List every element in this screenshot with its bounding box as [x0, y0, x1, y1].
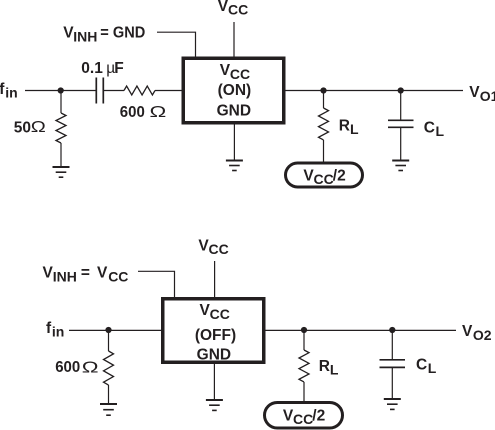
svg-text:L: L — [436, 123, 445, 139]
label 50 ohm — [14, 118, 46, 136]
svg-text:CC: CC — [293, 411, 313, 427]
junction node C — [398, 87, 404, 93]
box U2 pin label VCC — [200, 302, 230, 322]
wire box2 GND down — [213, 363, 215, 401]
svg-text:INH: INH — [53, 268, 77, 284]
wire output VO1 — [285, 90, 463, 92]
svg-text:600: 600 — [55, 359, 80, 376]
label VO2 — [462, 323, 492, 343]
wire CL to ground bottom — [391, 367, 393, 399]
wire node B to RL — [323, 91, 325, 109]
wire node E to RL — [303, 330, 305, 350]
svg-text:/2: /2 — [333, 167, 346, 184]
ground G3 — [392, 161, 409, 171]
svg-text:R: R — [339, 118, 350, 135]
svg-text:CC: CC — [230, 66, 250, 82]
svg-text:(OFF): (OFF) — [195, 327, 236, 344]
svg-text:0.1: 0.1 — [81, 60, 103, 77]
wire node C to CL — [400, 91, 402, 121]
svg-text:CC: CC — [108, 268, 128, 284]
label CL bottom — [416, 357, 437, 377]
svg-text:600: 600 — [120, 104, 145, 121]
ground G6 — [384, 399, 401, 409]
label VINH = VCC — [43, 265, 129, 285]
label VINH = GND — [63, 24, 145, 44]
label VCC supply bottom — [198, 238, 228, 258]
ground G5 — [206, 400, 223, 410]
wire RL to oval bottom — [303, 382, 305, 403]
svg-text:(ON): (ON) — [218, 82, 252, 99]
capacitor CL top plates — [388, 120, 414, 127]
ground G1 — [53, 167, 70, 177]
svg-text:CC: CC — [209, 241, 229, 257]
resistor 600 ohm shunt — [104, 351, 114, 385]
svg-text:in: in — [52, 323, 64, 339]
capacitor C 0.1uF plates — [96, 78, 103, 104]
svg-text:GND: GND — [217, 103, 251, 120]
svg-text:=: = — [81, 265, 90, 282]
resistor RL top — [319, 108, 329, 140]
wire VINH to box2 top — [138, 271, 175, 298]
wire node F to CL bottom — [391, 330, 393, 360]
junction node B — [320, 87, 326, 93]
svg-text:INH: INH — [73, 29, 97, 45]
svg-text:L: L — [330, 362, 339, 378]
resistor 50 ohm — [56, 113, 66, 143]
svg-text:CC: CC — [210, 306, 230, 322]
ground G2 — [226, 161, 243, 171]
svg-text:O2: O2 — [473, 327, 492, 343]
box U1 pin label VCC — [220, 62, 250, 82]
svg-text:L: L — [350, 121, 359, 137]
label VO1 — [469, 84, 495, 104]
junction node F — [389, 327, 395, 333]
wire CL to ground — [400, 127, 402, 160]
junction node E — [301, 327, 307, 333]
label VCC supply top — [218, 0, 249, 18]
capacitor CL bottom plates — [380, 360, 406, 368]
node fin label — [0, 81, 18, 101]
svg-text:Ω: Ω — [82, 360, 99, 377]
svg-text:Ω: Ω — [150, 104, 167, 121]
op box U2 (OFF) — [163, 299, 264, 363]
svg-text:F: F — [114, 60, 123, 77]
label VCC/2 inside oval bottom — [283, 407, 325, 427]
svg-text:O1: O1 — [480, 88, 495, 104]
label 600 ohm bottom — [55, 359, 98, 377]
wire VCC to box top — [233, 22, 235, 58]
label VCC/2 inside oval — [303, 167, 345, 187]
svg-text:= GND: = GND — [100, 24, 145, 41]
wire VINH to box top — [157, 32, 196, 58]
svg-text:C: C — [424, 119, 435, 136]
label 0.1 uF — [81, 60, 123, 77]
svg-text:CC: CC — [228, 2, 248, 18]
wire node A down — [60, 91, 62, 114]
junction node A — [58, 87, 64, 93]
svg-text:50: 50 — [14, 119, 31, 136]
svg-text:R: R — [319, 358, 330, 375]
svg-text:C: C — [416, 357, 427, 374]
svg-text:CC: CC — [314, 171, 334, 187]
svg-text:/2: /2 — [312, 407, 325, 424]
terminal oval VCC/2 bottom — [265, 403, 343, 429]
svg-text:GND: GND — [197, 347, 231, 364]
svg-text:L: L — [428, 360, 437, 376]
svg-text:Ω: Ω — [31, 118, 46, 135]
wire fin input bottom — [69, 329, 161, 331]
svg-text:V: V — [469, 84, 480, 101]
label CL — [424, 119, 445, 139]
label 600 ohm — [120, 104, 167, 121]
wire VCC to box2 top — [214, 261, 216, 299]
wire resistor to ground — [60, 143, 62, 167]
label RL — [339, 118, 359, 138]
label RL bottom — [319, 358, 339, 378]
junction node D — [105, 327, 111, 333]
svg-text:in: in — [5, 84, 17, 100]
svg-text:V: V — [462, 323, 473, 340]
resistor 600 ohm series — [124, 86, 155, 95]
wire node D down — [108, 330, 110, 351]
wire resistor to ground bottom — [108, 385, 110, 404]
wire output VO2 — [265, 329, 456, 331]
resistor RL bottom — [299, 350, 309, 382]
wire box GND down — [233, 125, 235, 161]
node fin label bottom — [46, 320, 64, 339]
op box U1 (ON) — [183, 58, 284, 123]
svg-text:V: V — [97, 265, 108, 282]
terminal oval VCC/2 — [286, 163, 363, 187]
wire RL to oval — [323, 140, 325, 163]
wire cap to resistor — [103, 90, 124, 92]
wire resistor to box — [155, 90, 183, 92]
ground G4 — [100, 404, 117, 415]
wire fin input — [25, 90, 96, 92]
